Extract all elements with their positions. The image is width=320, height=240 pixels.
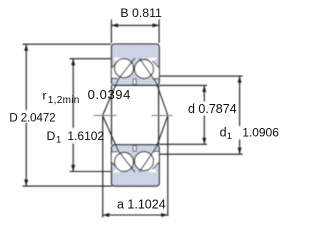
D1 extension line top xyxy=(70,58,112,60)
svg-text:r: r xyxy=(43,88,47,102)
a dimension line xyxy=(103,214,168,216)
d1 arrow top xyxy=(238,76,242,83)
inner ring split notch (lower half) xyxy=(133,146,136,152)
svg-text:a 1.1024: a 1.1024 xyxy=(117,197,166,211)
B extension line left xyxy=(110,20,112,44)
axis center line right segment xyxy=(152,115,173,117)
inner ring split notch (upper half) xyxy=(133,79,136,85)
ball lower-left xyxy=(115,152,134,171)
D1 arrow bottom xyxy=(71,165,75,172)
svg-text:D: D xyxy=(47,129,56,143)
D1 arrow top xyxy=(71,59,75,66)
white shoulder wedge left (lower half) xyxy=(113,166,121,172)
contact line lower-left row xyxy=(103,116,135,173)
d1 extension line top xyxy=(160,75,243,77)
outer ring land edge left (upper half) xyxy=(112,61,118,68)
bearing upper half outer+inner ring hatched section xyxy=(112,44,160,85)
D1 dimension line xyxy=(72,59,74,172)
D1 extension line bottom xyxy=(70,171,112,173)
svg-text:B 0.811: B 0.811 xyxy=(120,6,162,20)
d dimension line xyxy=(203,85,205,144)
B arrow right xyxy=(153,23,160,27)
bore silhouette vertical left xyxy=(111,85,113,145)
d arrow top xyxy=(202,85,206,92)
d1 arrow bottom xyxy=(238,148,242,155)
a extension line right xyxy=(167,117,169,217)
svg-text:d: d xyxy=(220,125,227,139)
B dimension line xyxy=(111,24,159,26)
inner ring bottom land line left (lower half) xyxy=(112,151,118,153)
svg-text:d 0.7874: d 0.7874 xyxy=(188,102,237,116)
svg-text:1.6102: 1.6102 xyxy=(67,129,104,143)
white side gap right (lower half) xyxy=(148,152,159,169)
B arrow left xyxy=(111,23,118,27)
contact line upper-left row xyxy=(103,58,135,115)
white side gap left (upper half) xyxy=(112,61,123,78)
svg-text:1,2min: 1,2min xyxy=(48,95,80,106)
D arrow top xyxy=(24,44,28,51)
B extension line right xyxy=(158,20,160,44)
white side gap left (lower half) xyxy=(112,152,123,169)
a arrow right xyxy=(161,213,168,217)
inner ring top land line left (upper half) xyxy=(112,77,118,79)
d1 dimension line xyxy=(239,76,241,154)
d arrow bottom xyxy=(202,138,206,145)
svg-text:1: 1 xyxy=(56,135,61,146)
inner ring top land line right (upper half) xyxy=(153,78,160,80)
white shoulder wedge right (lower half) xyxy=(149,166,157,172)
inner ring bottom land line right (lower half) xyxy=(153,150,160,152)
a arrow left xyxy=(103,213,110,217)
contact line upper-right row xyxy=(139,58,168,115)
bearing lower half outer+inner ring hatched section xyxy=(112,145,160,186)
outer ring land edge right (upper half) xyxy=(152,61,158,68)
outer ring land edge left (lower half) xyxy=(112,163,118,170)
contact line lower-right row xyxy=(139,116,168,173)
D arrow bottom xyxy=(24,180,28,187)
white shoulder wedge left (upper half) xyxy=(113,57,121,63)
white shoulder wedge right (upper half) xyxy=(149,57,157,63)
d extension line bottom xyxy=(160,143,208,145)
d1 extension line bottom xyxy=(160,153,243,155)
white side gap right (upper half) xyxy=(148,61,159,78)
bore silhouette vertical right xyxy=(158,85,160,145)
svg-text:1.0906: 1.0906 xyxy=(242,125,279,139)
D extension line bottom xyxy=(23,185,113,187)
ball upper-left xyxy=(115,59,134,78)
d extension line top xyxy=(160,84,208,86)
ball upper-right xyxy=(135,60,154,79)
ball lower-right xyxy=(135,152,154,171)
axis center line left segment xyxy=(94,115,117,117)
a extension line left xyxy=(102,117,104,218)
svg-text:1: 1 xyxy=(227,131,232,142)
D dimension line xyxy=(25,44,27,186)
svg-text:D 2.0472: D 2.0472 xyxy=(9,111,55,125)
svg-text:0.0394: 0.0394 xyxy=(88,87,131,102)
outer ring land edge right (lower half) xyxy=(152,163,158,170)
D extension line top xyxy=(23,43,112,45)
